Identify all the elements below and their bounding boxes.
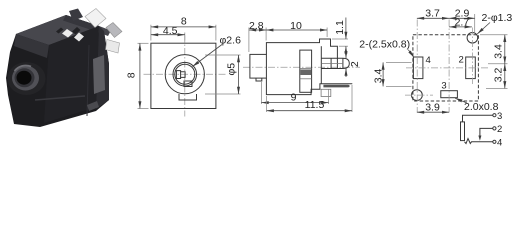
photo front corner line <box>87 45 89 116</box>
photo body <box>6 15 109 127</box>
svg-text:3.7: 3.7 <box>425 7 440 19</box>
front view big circle <box>165 55 204 94</box>
dimension 8 top <box>150 25 152 41</box>
side view barrel <box>250 54 267 78</box>
svg-text:2: 2 <box>497 124 502 135</box>
front view square <box>151 43 216 108</box>
dimension 10 <box>326 28 328 38</box>
footprint hole 2 <box>412 90 423 101</box>
svg-text:2.8: 2.8 <box>249 20 264 32</box>
svg-text:10: 10 <box>290 20 302 32</box>
svg-text:φ5: φ5 <box>225 63 237 76</box>
schematic pin2 circle <box>493 127 496 130</box>
schematic sleeve bar <box>461 122 465 141</box>
side view smd foot <box>323 85 349 88</box>
svg-text:3: 3 <box>441 81 446 92</box>
footprint centerline vertical hole1 <box>471 28 473 85</box>
front view ring inner <box>175 64 195 84</box>
dimension 3.4 right <box>480 34 508 36</box>
footprint hole 1 <box>467 32 478 43</box>
footprint centerline vertical pad4 <box>416 20 418 113</box>
svg-text:4: 4 <box>497 137 502 148</box>
side view barrel step <box>256 78 262 81</box>
side view contact <box>300 50 312 92</box>
svg-text:11.5: 11.5 <box>305 99 325 111</box>
photo window 1 <box>62 29 73 38</box>
photo right sliver face <box>96 26 109 109</box>
photo rear rim <box>63 15 99 32</box>
footprint pad 4 <box>413 57 423 79</box>
side view centerline <box>243 66 360 68</box>
front view bottom tab <box>179 94 197 100</box>
svg-text:2: 2 <box>459 54 464 65</box>
svg-text:2.0x0.8: 2.0x0.8 <box>464 101 499 113</box>
dimension 8 left <box>138 42 149 44</box>
front view ring outer <box>173 62 197 86</box>
svg-text:3: 3 <box>497 111 502 122</box>
footprint centerline hole2 <box>405 94 433 96</box>
footprint centerline vertical pad3 <box>448 20 450 113</box>
schematic switch arrow <box>478 136 481 141</box>
svg-text:4.5: 4.5 <box>163 25 178 37</box>
svg-text:9: 9 <box>291 91 297 103</box>
dimension phi2.6 leader <box>193 45 223 67</box>
front view centerline vertical <box>184 36 186 117</box>
dimension phi5 <box>205 54 241 56</box>
photo barrel outer <box>8 62 46 95</box>
svg-text:3.9: 3.9 <box>425 101 440 113</box>
dimension 4.5 <box>184 33 186 41</box>
photo top front slope <box>14 34 49 58</box>
photo pin right blade <box>106 23 122 38</box>
svg-text:2-(2.5x0.8): 2-(2.5x0.8) <box>359 38 410 50</box>
front view centerline horizontal <box>144 73 228 75</box>
footprint outline dashed <box>413 35 479 101</box>
schematic wire pin3 <box>463 115 493 122</box>
photo foot highlight <box>87 101 99 111</box>
dimension 9 <box>260 82 262 104</box>
svg-text:2.7: 2.7 <box>455 16 470 28</box>
front view bottom inner rect <box>184 81 192 87</box>
dimension 11.5 <box>266 96 268 112</box>
photo window 2 <box>74 33 84 42</box>
svg-text:3.2: 3.2 <box>492 67 504 82</box>
photo window 2 dark <box>72 27 81 35</box>
photo front ledge <box>35 96 85 100</box>
photo pin top blade <box>85 9 106 28</box>
svg-text:2-φ1.3: 2-φ1.3 <box>482 12 513 24</box>
dimension 3.2 right <box>504 64 506 89</box>
footprint centerline horizontal <box>406 67 490 69</box>
photo right leg <box>106 40 120 54</box>
dimension 2 pin <box>345 50 347 59</box>
dimension 1.1 <box>332 38 348 40</box>
side view body right wall <box>320 46 322 84</box>
photo metal contact right <box>93 55 105 94</box>
svg-text:4: 4 <box>426 55 431 66</box>
photo barrel ring <box>12 66 39 91</box>
dimension 2.7 <box>449 26 472 28</box>
svg-text:8: 8 <box>181 16 187 28</box>
svg-text:φ2.6: φ2.6 <box>220 35 242 47</box>
svg-text:2: 2 <box>349 61 361 67</box>
side view pin <box>321 58 349 68</box>
footprint pad 2 <box>466 57 476 79</box>
svg-text:8: 8 <box>125 72 137 78</box>
photo raised tab <box>69 9 83 22</box>
schematic wire pin2 <box>480 128 493 138</box>
footprint pad 3 <box>441 91 458 98</box>
dimension 3.7 <box>417 17 449 19</box>
schematic pin3 circle <box>493 114 496 117</box>
dimension 2.8 <box>248 28 250 53</box>
schematic pin4 circle <box>493 140 496 143</box>
dimension 2.9 <box>474 14 476 33</box>
side view lower leg <box>321 89 331 96</box>
svg-text:1.1: 1.1 <box>334 20 346 35</box>
dimension 3.9 <box>417 111 449 113</box>
svg-text:3.4: 3.4 <box>492 44 504 59</box>
front view contact notch <box>176 71 185 79</box>
photo top face <box>16 15 99 45</box>
schematic wire pin4 zigzag <box>465 139 493 144</box>
photo barrel hole <box>17 71 32 85</box>
leader (0.8) to pad 4 <box>408 50 414 58</box>
dimension 3.4 left <box>386 61 412 63</box>
photo front right face <box>44 26 99 123</box>
photo window 1 dark <box>56 28 64 34</box>
side view body outline <box>266 39 352 95</box>
svg-text:3.4: 3.4 <box>373 68 385 83</box>
